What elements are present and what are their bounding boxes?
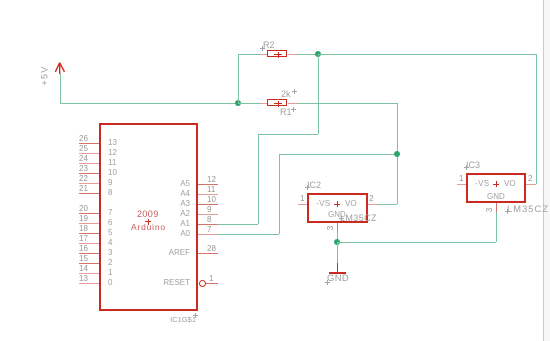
IC3 center cross	[492, 180, 494, 182]
resistor R2 body	[267, 50, 287, 57]
label IC2	[307, 181, 321, 190]
resistor R1 stub right	[288, 103, 298, 104]
right pins stubs pads 12-7	[198, 184, 218, 185]
label +5V	[41, 62, 50, 90]
origin cross GND	[324, 279, 326, 281]
label IC1G$1	[166, 316, 196, 324]
IC2 pin text -VS	[316, 200, 331, 208]
IC2 box	[307, 193, 368, 223]
left pads 26-21 labels	[79, 135, 88, 143]
wire IC3 pin3 riser	[496, 212, 497, 242]
origin cross LM35CZ IC2	[338, 215, 340, 217]
value 2009	[137, 210, 159, 219]
wire A0 link horizontal to J3	[279, 154, 397, 155]
right pads labels	[207, 176, 216, 184]
resistor R2 origin cross	[273, 51, 275, 53]
IC3 pin3 stub	[496, 203, 497, 212]
left pins group1 pads 26-21	[79, 143, 99, 144]
resistor R2 stub right	[288, 54, 298, 55]
wire R1 right to col397	[298, 103, 397, 104]
wire A0 riser	[279, 154, 280, 234]
IC3 pin text -VS	[475, 180, 490, 188]
label R1	[280, 108, 292, 117]
wire IC2 pin2 link	[377, 204, 397, 205]
wire +5V vertical	[60, 74, 61, 103]
resistor R1 body	[267, 99, 287, 106]
wire top run J2 to right riser	[318, 54, 536, 55]
wire R1 left	[238, 103, 260, 104]
IC3 value LM35CZ	[507, 205, 549, 215]
IC2 center cross	[333, 200, 335, 202]
Arduino IC1 box	[99, 123, 198, 311]
resistor R2 stub left	[260, 54, 268, 55]
wire A1 link horizontal	[258, 134, 318, 135]
right panel edge	[543, 0, 544, 341]
IC3 pin text GND	[487, 193, 505, 201]
pin names left 13-8	[108, 139, 117, 147]
left pins group2 pads 20-13	[79, 213, 99, 214]
wire IC2 pin3 down	[337, 231, 338, 242]
wire col397 down	[397, 103, 398, 204]
origin cross IC1	[192, 312, 194, 314]
wire +5V horizontal	[60, 103, 238, 104]
junction J2	[315, 51, 321, 57]
IC2 pin3 stub	[337, 223, 338, 231]
junction J1	[235, 100, 241, 106]
junction J3	[394, 151, 400, 157]
origin cross IC1 center	[144, 218, 146, 220]
pin names A5-A0	[160, 180, 190, 188]
wire A1 riser	[258, 134, 259, 224]
IC2 pin text GND	[328, 211, 346, 219]
left pads 20-13 labels	[79, 205, 88, 213]
IC3 pin text VO	[504, 180, 516, 188]
origin cross R2	[259, 45, 261, 47]
resistor R1 stub left	[260, 103, 268, 104]
wire GND link J4 to IC3	[337, 242, 496, 243]
AREF pin	[198, 253, 218, 254]
IC2 pin2 stub	[368, 204, 377, 205]
pin names left 7-0	[108, 209, 112, 217]
wire right riser down to IC3 pin2	[536, 54, 537, 184]
supply +5V symbol	[40, 55, 72, 80]
RESET pin with bubble	[199, 280, 206, 287]
junction J4	[334, 239, 340, 245]
label IC3	[466, 161, 480, 170]
IC3 box	[466, 173, 526, 203]
resistor R1 origin cross	[273, 100, 275, 102]
wire J4 down to GND	[337, 242, 338, 263]
IC2 pin text VO	[345, 200, 357, 208]
wire A1 to pin	[217, 224, 258, 225]
IC2 value LM35CZ	[340, 214, 377, 223]
name Arduino	[131, 223, 166, 232]
label 2k	[281, 90, 291, 99]
label GND	[327, 274, 349, 283]
origin cross 2k	[291, 88, 293, 90]
origin cross IC3	[463, 164, 465, 166]
wire A0 to pin	[217, 234, 279, 235]
wire J1 up to R2	[238, 54, 239, 103]
label R2	[263, 41, 275, 50]
GND symbol	[337, 263, 338, 272]
wire R2 right to J2	[298, 54, 318, 55]
wire R2 left	[238, 54, 260, 55]
wire J2 down	[318, 54, 319, 134]
IC3 pin2 stub	[526, 184, 536, 185]
origin cross LM35CZ IC3	[504, 208, 506, 210]
origin cross R1	[290, 106, 292, 108]
IC3 pin1 stub	[457, 184, 466, 185]
origin cross IC2	[304, 184, 306, 186]
IC2 pin1 stub	[298, 204, 307, 205]
